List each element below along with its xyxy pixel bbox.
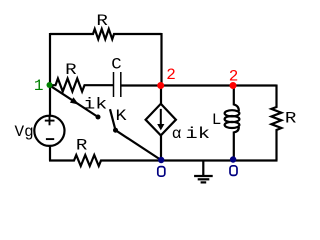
- svg-text:ik: ik: [83, 95, 107, 113]
- svg-text:R: R: [76, 137, 88, 155]
- svg-text:C: C: [111, 56, 121, 74]
- svg-text:2: 2: [166, 66, 176, 84]
- svg-text:Vg: Vg: [15, 123, 34, 141]
- svg-text:α: α: [172, 125, 182, 143]
- svg-text:R: R: [65, 61, 77, 79]
- svg-text:R: R: [285, 110, 297, 128]
- svg-text:R: R: [96, 12, 108, 30]
- svg-text:1: 1: [34, 77, 44, 95]
- svg-text:K: K: [116, 107, 127, 125]
- svg-text:ik: ik: [185, 125, 210, 143]
- svg-text:2: 2: [229, 68, 239, 86]
- svg-text:L: L: [212, 111, 222, 129]
